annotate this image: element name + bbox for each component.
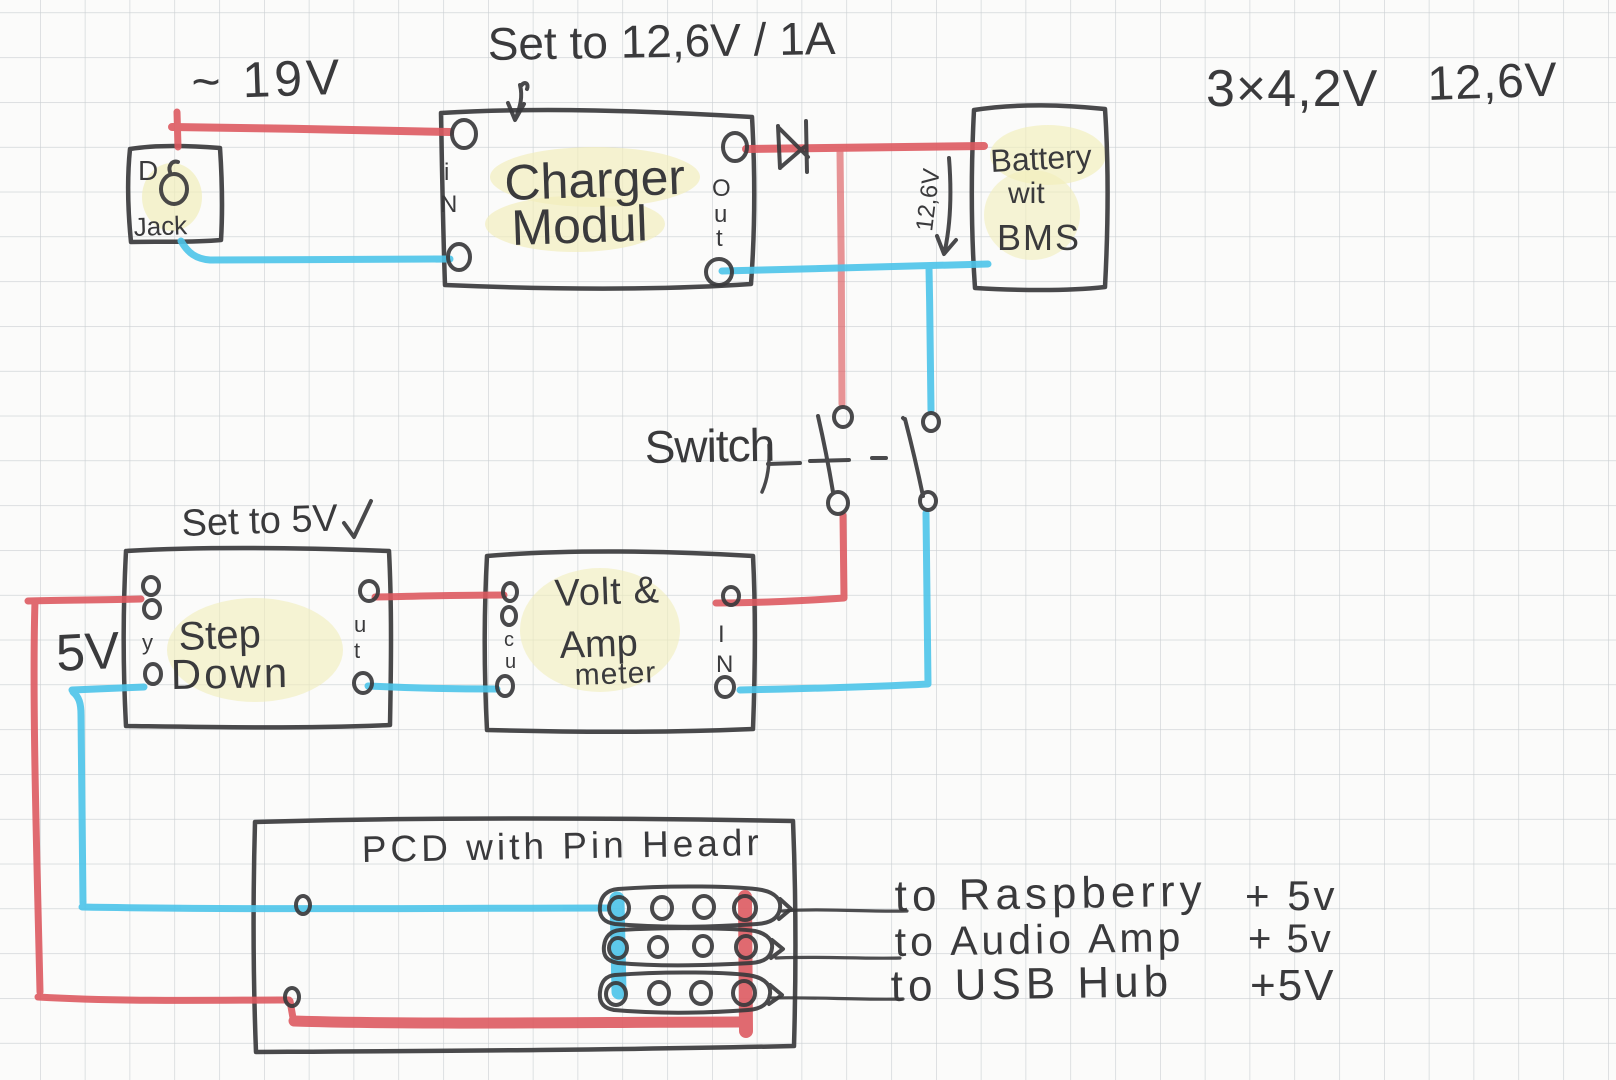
header row3 pin c1: [606, 983, 626, 1005]
wire +12.6V charger OUT+ through diode to battery: [746, 146, 984, 149]
wire +5V bottom to PCB pin: [38, 997, 289, 1000]
diode D1 triangle: [778, 126, 808, 168]
header row3 pin c2: [649, 982, 669, 1004]
header row1 pin a1: [609, 897, 629, 919]
svg-text:meter: meter: [574, 656, 657, 692]
svg-text:Set to 5V: Set to 5V: [181, 498, 339, 545]
svg-text:N: N: [716, 651, 733, 678]
svg-text:to USB Hub: to USB Hub: [890, 957, 1173, 1011]
header row2 pin b2: [649, 937, 667, 957]
header row2 right taper: [771, 940, 783, 958]
header row3 right taper: [769, 985, 782, 1004]
header row2 pin b1: [609, 938, 627, 958]
step down U2 pin left bottom: [145, 664, 161, 684]
checkmark after Set to 5V: [344, 501, 371, 537]
svg-text:Switch: Switch: [644, 419, 774, 473]
svg-text:3×4,2V: 3×4,2V: [1206, 60, 1378, 118]
header row1 pin a4: [734, 896, 756, 920]
step down converter U2 box: [124, 548, 391, 727]
wire GND step-down to meter: [368, 686, 497, 689]
svg-text:+ 5v: + 5v: [1245, 872, 1338, 919]
wire +19V DC jack to charger IN+: [172, 127, 450, 132]
battery BT1 box: [972, 105, 1108, 290]
blue wires: [72, 241, 988, 992]
svg-text:Set to 12,6V / 1A: Set to 12,6V / 1A: [487, 12, 836, 70]
wire header row1 to raspberry label: [782, 910, 907, 911]
DC jack J1 box: [128, 146, 222, 242]
svg-text:c: c: [504, 629, 514, 651]
wire +5V jog at PCB pin: [290, 1001, 293, 1018]
svg-text:y: y: [142, 630, 153, 655]
header row1 pin a3: [694, 896, 714, 918]
charger U1 pin IN+: [452, 120, 476, 148]
svg-text:+5V: +5V: [1250, 961, 1336, 1010]
dash between switches: [872, 456, 886, 460]
header row1 right taper: [779, 899, 791, 919]
switch S1 terminal bottom: [828, 492, 848, 514]
meter M1 left pin 1: [503, 583, 517, 601]
switch S1 dash left: [768, 463, 800, 464]
PCB pin +5V: [285, 988, 299, 1006]
switch S1 lever: [818, 416, 833, 492]
header row1 pin a2: [652, 897, 672, 919]
charger module U1 box: [441, 110, 754, 289]
svg-text:Battery: Battery: [989, 138, 1092, 179]
arrow into charger top: [508, 83, 528, 120]
header row3 pin c3: [691, 982, 711, 1004]
highlight charger module: [490, 147, 700, 207]
wire GND DC jack to charger IN-: [181, 241, 450, 260]
svg-text:O: O: [712, 175, 731, 202]
switch S2 terminal bottom: [920, 492, 936, 510]
pin header row 3 outline: [600, 972, 770, 1012]
header row3 pin c4: [733, 981, 755, 1005]
svg-text:PCD with Pin Headr: PCD with Pin Headr: [361, 822, 763, 870]
wire switch S1 to meter IN+: [716, 515, 844, 603]
svg-text:Volt &: Volt &: [554, 569, 661, 615]
wire GND step-down left: [72, 687, 144, 690]
pin header GND blue column bar: [617, 899, 619, 992]
PCB with pin header box: [254, 819, 796, 1053]
wire +5V thick bus to pin header: [294, 1021, 740, 1023]
meter M1 right pin IN+: [723, 587, 739, 605]
arrow battery charge direction: [937, 158, 956, 254]
highlight volt amp meter: [520, 568, 680, 692]
highlight step down: [167, 598, 343, 702]
meter M1 left pin 2: [502, 607, 516, 625]
red wires: [28, 112, 984, 1031]
charger U1 pin OUT+: [723, 133, 747, 161]
svg-text:u: u: [354, 612, 366, 637]
wire GND bottom to pin header: [82, 907, 614, 909]
PCB pin GND: [296, 896, 310, 914]
wire header row3 to usb hub label: [772, 998, 903, 999]
svg-text:t: t: [716, 225, 723, 252]
wire +12.6V branch down to switch S1: [840, 151, 842, 404]
svg-text:BMS: BMS: [997, 217, 1081, 258]
diode D1 cathode bar: [806, 121, 807, 172]
header row2 pin b3: [694, 936, 712, 956]
charger U1 pin OUT-: [706, 259, 732, 285]
switch S2 terminal top: [923, 413, 939, 431]
svg-text:u: u: [714, 201, 727, 228]
header row2 pin b4: [736, 936, 756, 958]
wire GND branch down to switch S2: [929, 268, 931, 410]
svg-text:~ 19V: ~ 19V: [190, 49, 344, 110]
step down U2 pin right top: [360, 581, 378, 601]
switch label h descender: [762, 445, 769, 492]
pin header row 2 outline: [604, 928, 772, 965]
wire +5V step-down OUT+ to meter: [375, 595, 504, 597]
svg-text:Down: Down: [170, 649, 290, 698]
step down U2 pin OUT+ left top: [143, 577, 159, 595]
pin header +5V red column bar: [745, 897, 746, 1031]
wire +5V vertical down left margin: [34, 601, 40, 992]
switch S1 terminal top: [834, 407, 852, 427]
volt amp meter M1 box: [485, 551, 755, 731]
svg-text:+ 5v: + 5v: [1248, 917, 1333, 961]
wire +5V step-down left to PCB: [28, 599, 141, 601]
switch S1 crossbar: [810, 460, 849, 461]
svg-text:to Raspberry: to Raspberry: [894, 867, 1207, 921]
wire switch S2 to meter IN-: [740, 513, 928, 690]
svg-text:12,6V: 12,6V: [1427, 53, 1559, 111]
charger U1 pin IN-: [448, 244, 470, 270]
switch S2 lever: [903, 418, 923, 496]
svg-text:u: u: [505, 651, 516, 673]
meter M1 right pin IN-: [716, 677, 734, 697]
svg-text:D: D: [138, 155, 158, 186]
wire +19V stub at DC jack: [177, 112, 178, 147]
svg-text:wit: wit: [1007, 177, 1045, 210]
svg-text:5V: 5V: [55, 622, 122, 683]
DC jack barrel symbol: [161, 174, 187, 204]
step down U2 pin right bottom: [354, 673, 372, 693]
pin header row 1 outline: [600, 886, 780, 926]
svg-text:Modul: Modul: [510, 195, 648, 256]
highlight DC jack: [142, 163, 202, 231]
svg-text:N: N: [440, 191, 457, 218]
wire GND charger OUT- to battery: [722, 264, 988, 271]
highlight battery: [990, 125, 1106, 185]
meter M1 left pin 5: [497, 676, 513, 696]
wire header row2 to audio amp label: [776, 956, 900, 960]
svg-text:Jack: Jack: [133, 210, 188, 242]
wire GND vertical down left: [73, 692, 83, 903]
step down U2 pin left second: [144, 600, 160, 618]
svg-text:t: t: [354, 638, 360, 663]
svg-text:I: I: [718, 621, 725, 648]
svg-text:i: i: [444, 159, 449, 186]
